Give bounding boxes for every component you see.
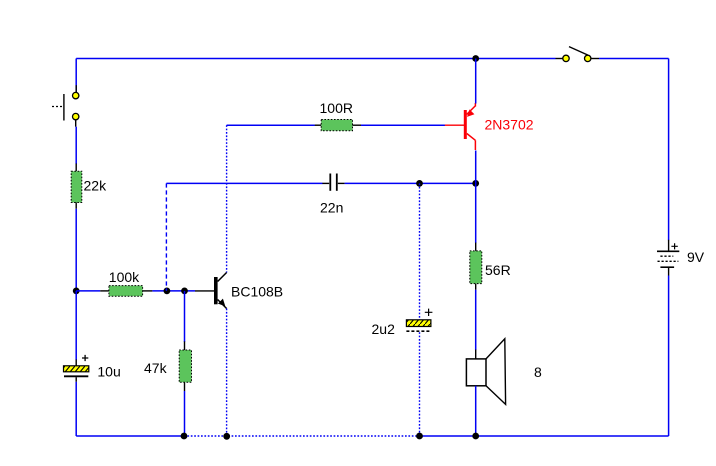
wire 22k to base node [75,209,77,291]
capacitor 2u2 electrolytic [372,309,433,337]
wire 22n row left (166.4,183.4)-(322.4,183.4) [166,182,322,184]
push button SW2 [52,85,79,127]
junction dot bottom emitter (226.7,436) [223,433,230,440]
transistor Q2 2N3702 [445,103,534,150]
junction dot bottom 47k (184,436) [181,433,188,440]
wire 47k to bottom rail [184,391,186,436]
wire top rail left (76,58.5)-(555.5,58.5) [76,58,555,60]
junction dot collector node (475.7,183.4) [472,180,479,187]
wire 22n row right (344.6,183.4)-(475.7,183.4) [345,182,476,184]
resistor 100R [315,100,361,131]
wire speaker to bottom rail [475,386,477,436]
wire 100k to BC108B base [152,290,195,292]
svg-text:8: 8 [534,364,542,380]
svg-text:22k: 22k [84,178,108,194]
resistor 56R [470,243,511,290]
junction dot base-22n (166.9,290.9) [164,288,171,295]
wire dotted 2u2 branch upper (419.5,183.4)-(419.5,319.8) [419,183,421,320]
wire 56R to speaker [475,290,477,350]
transistor Q1 BC108B [195,273,283,309]
wire 100R to 2N3702 base [361,124,445,126]
svg-text:47k: 47k [144,360,168,376]
wire dotted BC108B emitter down (226.6,308.5)-(226.6,436) [226,309,228,437]
resistor 47k [144,341,192,391]
svg-text:BC108B: BC108B [231,284,283,300]
wire 10u to bottom rail [75,382,77,436]
wire dashed 22n feedback (166.4,183.4)-(166.4,290.9) [165,183,167,291]
wire bottom rail solid left (76.2,436)-(184,436) [76,435,184,437]
junction dot left node (76.2,290.9) [73,288,80,295]
wire 47k branch upper [184,291,186,342]
resistor 22k [71,164,107,209]
wire bottom rail dotted (184,436)-(419.5,436) [184,435,420,437]
wire dotted BC108B collector up (226.6,125.2)-(226.6,272.5) [226,125,228,272]
wire button to R 22k [75,127,77,164]
junction dot bottom 2u2 (419.5,436) [416,433,423,440]
svg-text:2N3702: 2N3702 [485,117,534,133]
speaker LS1 8 ohm [466,339,542,405]
wire 2N3702 collector to node [475,151,477,184]
junction dot 2u2 top (419.5,183.4) [416,180,423,187]
svg-text:22n: 22n [320,200,343,216]
capacitor 10u electrolytic [64,355,121,382]
switch S1 [556,47,600,62]
svg-text:100R: 100R [320,100,353,116]
svg-text:10u: 10u [97,364,120,380]
wire dotted 2u2 branch lower (419.5,332)-(419.5,436) [419,332,421,436]
svg-text:2u2: 2u2 [372,321,396,337]
svg-text:56R: 56R [485,262,511,278]
junction dot base-47k (184.5,290.9) [181,288,188,295]
svg-text:9V: 9V [687,249,705,265]
capacitor 22n [320,174,345,216]
wire 100R row left (226.6,125.2)-(314.7,125.2) [227,124,315,126]
wire bottom rail solid right (419.5,436)-(668.6,436) [420,435,669,437]
wire base row left (76,291)-(100,291) [76,290,100,292]
wire node to 10u [75,291,77,360]
junction dot top (475.7,58.5) [472,55,479,62]
resistor 100k [100,269,152,296]
wire top rail right (599,58.5)-(668.6,58.5) [599,58,669,60]
wire collector node to 56R [475,183,477,243]
wire left vertical above button [75,59,77,93]
svg-text:100k: 100k [109,269,140,285]
wire right rail lower (668.6,275.5)-(668.6,436) [668,276,670,437]
battery B1 9V [657,240,705,276]
junction dot bottom speaker (475.7,436) [472,433,479,440]
wire right rail upper (668.6,58.5)-(668.6,239.8) [668,59,670,241]
wire 2N3702 emitter to top rail [475,59,477,104]
